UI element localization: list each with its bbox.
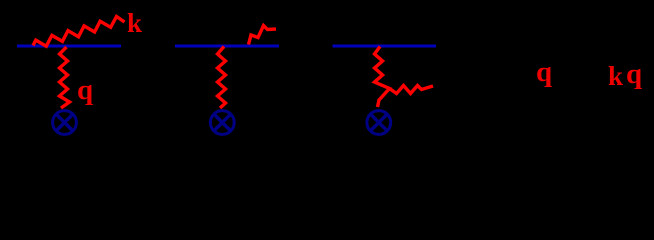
radiated photon from exchange (diagram 3) (390, 86, 434, 94)
exchange boson q (diagram 1) (60, 47, 70, 108)
source vertex circle-cross 1 (53, 111, 77, 135)
label q (diagram 1 exchange momentum) (77, 76, 93, 105)
fermion line 3 (333, 45, 437, 48)
label q (right formula) (536, 58, 552, 87)
source vertex circle-cross 2 (210, 111, 234, 135)
photon (diagram 2) (249, 26, 277, 45)
label k (right formula) (608, 63, 623, 90)
exchange boson (diagram 3) (375, 47, 390, 108)
source vertex circle-cross 3 (367, 111, 391, 135)
photon k (diagram 1) (33, 17, 125, 47)
exchange boson (diagram 2) (218, 47, 226, 109)
label q (right formula, after k) (626, 60, 642, 89)
label k (diagram 1 photon momentum) (127, 10, 142, 37)
fermion line 1 (17, 45, 121, 48)
fermion line 2 (175, 45, 279, 48)
